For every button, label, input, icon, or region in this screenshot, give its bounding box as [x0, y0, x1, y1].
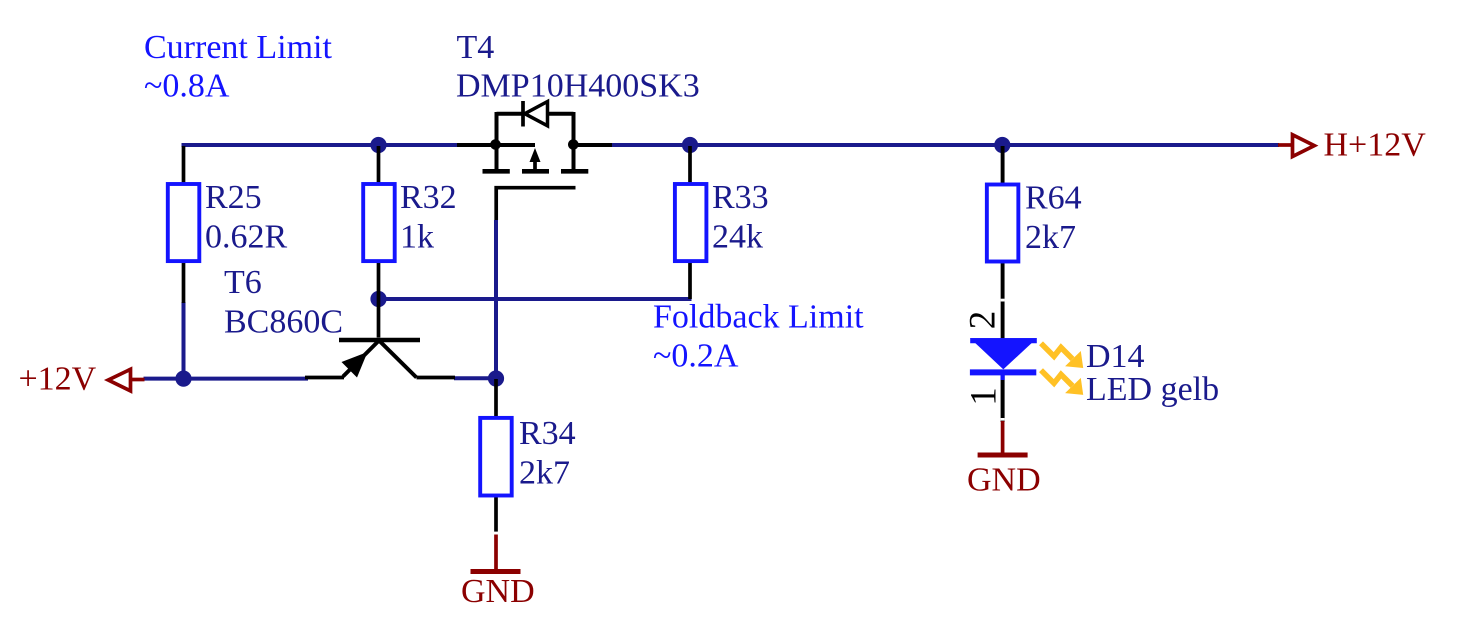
svg-text:D14: D14 — [1086, 338, 1145, 375]
wire +12V lead — [144, 377, 309, 381]
resistor R33 — [675, 146, 707, 299]
resistor R32 — [363, 146, 395, 299]
power port +12V arrow — [108, 369, 144, 391]
LED D14 — [970, 338, 1037, 422]
pin end gap LED/GND — [1001, 418, 1005, 421]
junction at +12V / R25 — [175, 371, 191, 387]
pin end gap R34/GND — [494, 532, 498, 535]
svg-text:~0.2A: ~0.2A — [653, 337, 739, 374]
svg-text:~0.8A: ~0.8A — [144, 68, 230, 105]
wire gate to node — [494, 220, 498, 379]
resistor R64 — [987, 146, 1019, 339]
svg-text:2: 2 — [963, 311, 1004, 330]
pin end gap R64/LED — [1001, 299, 1005, 302]
resistor R34 — [480, 379, 512, 534]
power port H+12V arrow — [1278, 135, 1314, 157]
svg-text:2k7: 2k7 — [1025, 219, 1076, 256]
svg-text:R32: R32 — [400, 179, 457, 216]
svg-text:LED gelb: LED gelb — [1086, 371, 1219, 408]
svg-text:H+12V: H+12V — [1324, 127, 1427, 164]
svg-text:0.62R: 0.62R — [205, 219, 288, 256]
svg-text:R64: R64 — [1025, 180, 1082, 217]
junction at gate / R34 node — [488, 370, 504, 386]
ground symbol under R34 — [471, 535, 521, 572]
wire below R25 — [182, 302, 186, 379]
junction at R32 bottom — [370, 291, 386, 307]
svg-text:2k7: 2k7 — [519, 455, 570, 492]
svg-text:+12V: +12V — [19, 361, 97, 398]
wire H+12V rail left segment — [182, 143, 458, 147]
LED light arrow 2 — [1041, 370, 1083, 395]
svg-text:GND: GND — [967, 462, 1041, 499]
svg-text:Foldback Limit: Foldback Limit — [653, 299, 864, 336]
svg-text:Current Limit: Current Limit — [144, 29, 332, 66]
wire collector to node — [454, 376, 496, 380]
ground symbol under LED — [978, 421, 1028, 455]
resistor R25 — [168, 146, 200, 303]
svg-text:R25: R25 — [205, 179, 262, 216]
wire R32-R33 link — [379, 297, 692, 301]
mosfet T4 — [457, 101, 612, 220]
wire H+12V rail right segment — [612, 143, 1279, 147]
svg-text:1: 1 — [963, 387, 1004, 406]
svg-text:GND: GND — [461, 573, 535, 610]
svg-text:1k: 1k — [400, 219, 434, 256]
junction at R32 top — [370, 137, 386, 153]
svg-text:DMP10H400SK3: DMP10H400SK3 — [456, 68, 700, 105]
svg-text:T6: T6 — [224, 264, 262, 301]
svg-text:T4: T4 — [457, 29, 495, 66]
transistor T6 — [305, 299, 455, 378]
svg-text:R34: R34 — [519, 415, 576, 452]
svg-text:BC860C: BC860C — [224, 304, 343, 341]
junction at R64 top — [994, 137, 1010, 153]
junction at R33 top — [682, 137, 698, 153]
svg-text:R33: R33 — [712, 179, 769, 216]
LED light arrow 1 — [1041, 343, 1083, 368]
svg-text:24k: 24k — [712, 219, 763, 256]
